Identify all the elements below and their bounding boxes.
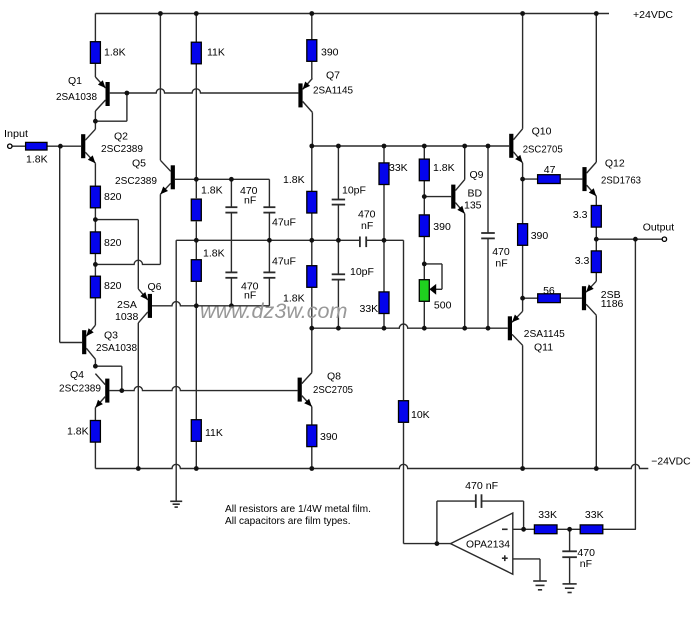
svg-text:390: 390 [321, 46, 339, 58]
svg-text:1038: 1038 [115, 311, 139, 323]
svg-text:390: 390 [320, 431, 338, 443]
svg-text:2SA: 2SA [117, 299, 137, 311]
svg-text:3.3: 3.3 [575, 255, 590, 267]
svg-text:nF: nF [361, 220, 373, 232]
svg-text:1.8K: 1.8K [26, 154, 48, 166]
svg-text:Q2: Q2 [114, 130, 128, 142]
svg-text:11K: 11K [205, 427, 223, 439]
svg-text:Q11: Q11 [534, 342, 553, 354]
svg-text:+24VDC: +24VDC [633, 9, 673, 21]
svg-text:3.3: 3.3 [573, 209, 588, 221]
svg-text:47uF: 47uF [272, 216, 296, 228]
svg-text:33K: 33K [389, 162, 408, 174]
svg-text:1.8K: 1.8K [203, 247, 225, 259]
svg-text:820: 820 [104, 191, 122, 203]
svg-text:Q1: Q1 [68, 75, 82, 87]
svg-text:nF: nF [244, 194, 256, 206]
svg-text:Q12: Q12 [605, 158, 625, 170]
svg-text:1.8K: 1.8K [433, 162, 455, 174]
svg-text:2SC2389: 2SC2389 [101, 143, 143, 155]
svg-text:10pF: 10pF [350, 266, 374, 278]
svg-text:Q6: Q6 [148, 281, 162, 293]
svg-text:820: 820 [104, 237, 122, 249]
svg-text:135: 135 [464, 199, 482, 211]
svg-text:BD: BD [468, 188, 483, 200]
svg-text:470: 470 [358, 209, 376, 221]
svg-text:11K: 11K [207, 46, 225, 58]
svg-text:470: 470 [492, 246, 510, 258]
svg-text:33K: 33K [360, 303, 379, 315]
svg-text:Q8: Q8 [327, 370, 341, 382]
svg-text:Q3: Q3 [104, 329, 118, 341]
svg-text:500: 500 [434, 299, 452, 311]
svg-text:OPA2134: OPA2134 [466, 539, 510, 551]
svg-text:2SC2389: 2SC2389 [59, 383, 101, 395]
svg-text:Output: Output [643, 222, 675, 234]
svg-text:−24VDC: −24VDC [651, 456, 691, 468]
svg-text:Q10: Q10 [532, 126, 552, 138]
svg-text:2SA1145: 2SA1145 [313, 84, 353, 96]
svg-text:33K: 33K [538, 509, 557, 521]
svg-text:390: 390 [433, 221, 451, 233]
svg-text:390: 390 [531, 230, 549, 242]
svg-text:470: 470 [577, 547, 595, 559]
svg-text:2SD1763: 2SD1763 [601, 174, 641, 186]
svg-text:2SA1145: 2SA1145 [524, 328, 565, 340]
svg-text:2SC2705: 2SC2705 [523, 144, 563, 156]
svg-text:820: 820 [104, 280, 122, 292]
svg-text:1.8K: 1.8K [104, 46, 126, 58]
svg-text:Q5: Q5 [132, 157, 146, 169]
svg-text:47uF: 47uF [272, 255, 296, 267]
svg-text:47: 47 [544, 164, 556, 176]
svg-text:10pF: 10pF [342, 185, 366, 197]
svg-text:2SC2705: 2SC2705 [313, 384, 353, 396]
svg-text:Q9: Q9 [470, 169, 484, 181]
svg-text:Q4: Q4 [70, 369, 84, 381]
svg-text:nF: nF [580, 558, 592, 570]
svg-text:www.dz3w.com: www.dz3w.com [200, 299, 348, 323]
svg-text:1.8K: 1.8K [283, 174, 305, 186]
svg-text:1.8K: 1.8K [201, 184, 223, 196]
svg-text:Input: Input [4, 128, 28, 140]
svg-text:10K: 10K [411, 409, 430, 421]
svg-text:1186: 1186 [601, 298, 624, 310]
svg-text:1.8K: 1.8K [67, 426, 89, 438]
svg-text:All capacitors are film types.: All capacitors are film types. [225, 515, 351, 527]
svg-text:Q7: Q7 [326, 69, 340, 81]
svg-text:2SA1038: 2SA1038 [96, 342, 137, 354]
svg-text:56: 56 [543, 285, 555, 297]
svg-text:nF: nF [495, 257, 507, 269]
svg-text:33K: 33K [585, 509, 604, 521]
svg-text:470 nF: 470 nF [465, 480, 498, 492]
svg-text:2SA1038: 2SA1038 [56, 91, 97, 103]
svg-text:All resistors are 1/4W metal f: All resistors are 1/4W metal film. [225, 503, 371, 515]
svg-text:2SC2389: 2SC2389 [115, 175, 157, 187]
